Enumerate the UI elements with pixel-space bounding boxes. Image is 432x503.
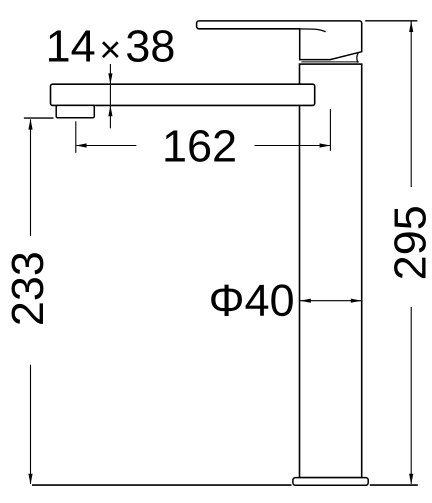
dim 295 arrow down xyxy=(409,474,413,485)
dim 295 label xyxy=(394,207,426,278)
baseline right segment xyxy=(370,484,418,486)
dim 233 arrow down xyxy=(28,474,32,485)
dim 162 extension line right xyxy=(329,109,331,151)
dim phi40 label xyxy=(211,284,293,316)
dim 295 line upper xyxy=(410,22,412,188)
dim 162 arrow right xyxy=(320,143,331,147)
dim 233 extension tick xyxy=(24,117,54,119)
dim 14x38 leader line xyxy=(109,64,111,128)
dim 14x38 arrow up xyxy=(108,106,112,117)
dim 233 label xyxy=(12,253,44,324)
dim phi40 arrow right xyxy=(351,299,362,303)
dim 295 extension tick xyxy=(365,20,417,22)
collar line xyxy=(301,61,358,63)
dim 233 line lower xyxy=(30,365,32,484)
dim 14x38 label xyxy=(49,30,173,62)
dim 162 line left xyxy=(76,145,136,147)
dim 295 arrow up xyxy=(409,21,413,32)
dim phi40 line xyxy=(300,300,361,302)
dim 14x38 arrow down xyxy=(108,73,112,84)
dim 295 line lower xyxy=(410,307,412,484)
dim 162 arrow left xyxy=(76,143,87,147)
lever underside curve xyxy=(300,29,326,32)
dim phi40 arrow left xyxy=(300,299,311,303)
dim 162 line right xyxy=(255,145,331,147)
base plate xyxy=(293,478,368,486)
spout arm xyxy=(51,84,315,105)
dim 162 extension line left xyxy=(75,121,77,153)
baseline left segment xyxy=(32,484,292,486)
dim 233 arrow up xyxy=(28,119,32,130)
faucet body column xyxy=(300,64,362,478)
dim 162 label xyxy=(165,130,234,162)
handle lever and block silhouette xyxy=(197,21,362,60)
cartridge arc detail xyxy=(357,53,359,63)
aerator outlet xyxy=(56,105,94,117)
dim 233 line upper xyxy=(30,120,32,237)
